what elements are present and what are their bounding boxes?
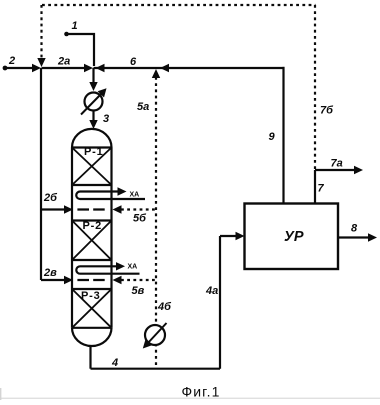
svg-text:7б: 7б [320,105,334,117]
bed 1 X diagonal b [72,148,112,186]
bed 2 bottom line [72,259,112,261]
reactor left wall [71,148,73,328]
svg-text:4а: 4а [205,285,218,297]
svg-text:Р-2: Р-2 [83,220,103,232]
svg-text:ХА: ХА [128,264,138,271]
arrowhead: 4а into УР [236,232,245,240]
arrowhead: 8 outlet [368,233,377,241]
reactor bottom dome [72,328,112,346]
cooling coil W2 [76,266,139,273]
bed 2 X diagonal b [72,221,112,261]
svg-text:Р-3: Р-3 [81,290,101,302]
svg-text:6: 6 [130,56,137,68]
svg-text:5в: 5в [132,285,145,297]
bed 1 bottom line [72,184,112,186]
scan artifact: faint bottom edge line [0,398,380,399]
svg-text:8: 8 [351,223,358,235]
bed 2 feed distributor dashes [77,279,104,281]
wire 1 [67,34,95,66]
wire 3: heater to reactor top [92,111,94,124]
svg-text:2: 2 [8,55,15,67]
wire 2 [5,67,34,69]
arrowhead: 2в into reactor [64,276,73,284]
wire 4а horizontal [220,235,238,237]
svg-text:Р-1: Р-1 [84,146,104,158]
wire 2а [42,67,87,69]
bed 1 top line [72,146,112,148]
scan artifact: faint left edge tick [0,388,1,400]
heater E1 circle [85,93,103,111]
E1 diagonal arrow [81,92,103,115]
wire 9 [282,67,284,204]
arrowhead: wire 6 at 5а junction [160,64,169,72]
svg-text:2б: 2б [43,192,58,204]
arrowhead: wire 2 into junction J1 [32,64,41,72]
unit УР box [245,204,339,270]
arrowhead: 7б into feed junction J1 [37,58,45,67]
arrowhead: W2 outlet ХА [116,262,125,270]
wire 4а vertical [219,236,221,369]
wire 5в dotted branch [121,279,156,281]
svg-text:ХА: ХА [130,192,140,199]
heat exchanger E2 circle [145,325,165,345]
svg-text:3: 3 [103,113,109,125]
bed 3 X diagonal a [72,289,112,328]
arrowhead: into reactor dome [89,120,97,129]
wire 4 bottom horizontal [91,368,221,370]
svg-text:7а: 7а [331,158,343,170]
bed 2 X diagonal a [72,221,112,261]
bed 1 X diagonal a [72,148,112,186]
svg-text:4: 4 [111,357,118,369]
wire 7б: dotted left vertical drop [40,5,42,59]
wire 7б: dotted top horizontal recycle [42,4,316,6]
reactor right wall [110,148,112,328]
wire 3: junction J2 down to heater [92,68,94,88]
svg-text:2в: 2в [43,267,57,279]
arrowhead: 5а up into wire 6 [152,69,160,78]
E2 diagonal arrow [147,323,167,344]
bed 1 feed distributor dashes [77,208,104,210]
svg-text:1: 1 [72,20,78,32]
arrowhead: E2 diagonal SW [143,339,152,348]
wire 2 distribution vertical [40,68,42,280]
bed 3 X diagonal b [72,289,112,328]
bed 2 top line [72,219,112,221]
wire 2б branch [41,208,66,210]
reactor top dome [72,129,112,148]
arrowhead: wire 2а into junction J2 [84,64,93,72]
arrowhead: wire 6 into junction J2 [96,64,105,72]
arrowhead: 5в into reactor [113,276,122,284]
svg-text:5а: 5а [137,101,149,113]
arrowhead: E1 diagonal NE [98,88,107,97]
wire 2в branch [41,279,66,281]
svg-text:7: 7 [318,183,325,195]
bed 3 top line [72,288,112,290]
arrowhead: W1 outlet ХА [118,187,127,195]
svg-text:Фиг.1: Фиг.1 [182,384,221,400]
arrowhead: into heater E1 [89,82,97,91]
node: stream 1 inlet dot [64,32,69,37]
wire 7 [314,170,316,204]
node: stream 2 inlet dot [3,66,8,71]
arrowhead: 5б into reactor [113,205,122,213]
svg-text:2а: 2а [57,56,70,68]
wire 5а: dotted vertical recycle riser [155,77,157,369]
wire 4 outlet stem [89,345,91,368]
arrowhead: 7а outlet [354,166,363,174]
wire 6 [94,67,285,69]
bed 3 bottom line [72,327,112,329]
svg-text:9: 9 [269,131,276,143]
wire 7а [315,169,355,171]
svg-text:4б: 4б [157,301,172,313]
wire 8 [338,236,369,238]
svg-text:5б: 5б [133,213,147,225]
cooling coil W1 [76,192,145,200]
arrowhead: 2б into reactor [64,205,73,213]
wire 5б dotted branch [121,208,156,210]
svg-text:УР: УР [284,229,304,245]
wire 7б: dotted right vertical [314,5,316,170]
